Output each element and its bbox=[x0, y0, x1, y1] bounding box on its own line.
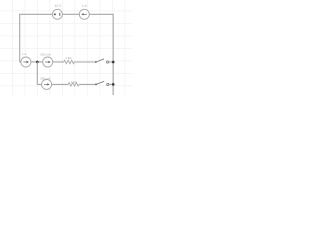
voltage source V1 12V bbox=[52, 9, 62, 19]
resistor R2 bbox=[68, 83, 79, 86]
current source I4 500mA (arrow right) bbox=[42, 79, 52, 89]
current source I1 1A (arrow left) bbox=[79, 9, 89, 19]
current source I2 1A (arrow right) bbox=[21, 57, 31, 67]
current source I3 500mA (arrow right) bbox=[43, 57, 53, 67]
wire I4 to resistor R2 bbox=[52, 83, 69, 85]
junction node A bbox=[36, 61, 39, 64]
switch S1 (open) bbox=[95, 59, 113, 63]
grid bbox=[0, 0, 132, 95]
right rail wire bbox=[112, 14, 114, 95]
svg-text:1 A: 1 A bbox=[22, 52, 26, 56]
wire I2 to junction A bbox=[31, 61, 43, 63]
wire between voltage source and current source bbox=[62, 13, 79, 15]
wire I3 to resistor R1 bbox=[53, 61, 64, 63]
resistor R1 bbox=[64, 60, 75, 63]
junction node B bbox=[112, 61, 115, 64]
svg-text:12 V: 12 V bbox=[55, 4, 62, 8]
wire top-left corner to voltage source bbox=[20, 14, 53, 62]
svg-text:1 kΩ: 1 kΩ bbox=[65, 56, 72, 60]
junction node C bbox=[112, 83, 115, 86]
svg-text:1 kΩ: 1 kΩ bbox=[70, 80, 77, 84]
wire R2 to switch S2 bbox=[79, 83, 96, 85]
wire junction A down to bottom row bbox=[37, 62, 41, 84]
svg-text:500 mA: 500 mA bbox=[40, 53, 50, 57]
switch S2 (open) bbox=[95, 81, 113, 85]
wire current source to right rail bbox=[89, 13, 113, 15]
svg-text:500 mA: 500 mA bbox=[40, 77, 50, 81]
wire R1 to switch S1 bbox=[75, 61, 96, 63]
